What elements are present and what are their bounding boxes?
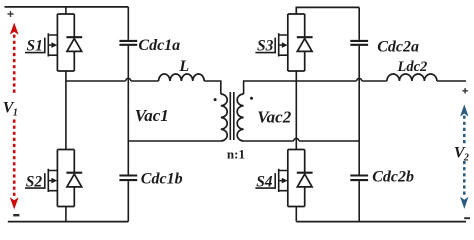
svg-text:S4: S4	[256, 173, 273, 190]
top bus (left bridge, V1 side)	[5, 6, 129, 8]
capacitor Cdc1a	[119, 41, 137, 45]
svg-text:S3: S3	[257, 37, 274, 54]
minus terminal V2	[464, 217, 470, 219]
svg-text:Vac1: Vac1	[135, 106, 169, 125]
wire B: primary bottom to cap midpoint	[128, 140, 221, 142]
secondary top lead to Ldc2 wire, hop over right cap leg	[244, 81, 387, 94]
transistor S4 body box	[288, 150, 305, 207]
transistor S2 MOSFET symbol (gate, channel, arrow)	[25, 169, 57, 192]
svg-text:S1: S1	[27, 37, 43, 54]
V1 port arrow (red dashed, double headed)	[13, 35, 16, 198]
capacitor Cdc1b	[119, 176, 137, 181]
V2 port arrow (blue dashed, double headed)	[463, 116, 466, 198]
capacitor Cdc2b	[350, 176, 368, 181]
transistor S3 MOSFET symbol (gate, channel, arrow)	[255, 33, 287, 56]
polarity dot primary	[214, 98, 217, 101]
wire A: leg midpoint through L to primary, with hop over cap leg	[66, 80, 159, 82]
svg-text:Cdc1a: Cdc1a	[138, 37, 180, 54]
polarity dot secondary	[250, 97, 253, 100]
plus terminal V2	[462, 88, 467, 93]
transformer secondary winding	[237, 94, 243, 141]
right switching-leg wires	[295, 71, 297, 222]
body diode of S3	[304, 14, 306, 71]
secondary bottom lead to right leg midpoint and cap midpoint	[244, 140, 360, 142]
left switching-leg wires (stubs and midpoint)	[65, 7, 67, 222]
svg-text:n:1: n:1	[227, 146, 245, 161]
inductor Ldc2	[387, 74, 437, 81]
inductor L	[159, 74, 205, 81]
transistor S3 body box	[288, 14, 305, 71]
svg-text:Vac2: Vac2	[257, 107, 292, 126]
plus terminal V1	[8, 11, 14, 17]
junction bump at right leg midpoint	[294, 138, 299, 141]
bottom bus (right bridge)	[296, 221, 466, 223]
top bus (right bridge)	[296, 7, 359, 14]
svg-text:Cdc2b: Cdc2b	[372, 169, 414, 186]
transistor S1 MOSFET symbol (gate, channel, arrow)	[25, 33, 57, 56]
body diode of S4	[304, 150, 306, 207]
svg-text:S2: S2	[26, 173, 43, 190]
svg-text:Cdc2a: Cdc2a	[377, 39, 419, 56]
transistor S1 body box	[57, 14, 74, 71]
minus terminal V1	[13, 214, 19, 216]
transformer primary winding	[221, 94, 227, 141]
capacitor Cdc2a	[350, 41, 368, 45]
svg-text:2: 2	[463, 152, 469, 163]
transistor S2 body box	[57, 150, 74, 207]
svg-text:L: L	[178, 58, 189, 75]
svg-text:Ldc2: Ldc2	[397, 59, 428, 75]
svg-text:1: 1	[13, 107, 18, 118]
body diode of S1	[73, 14, 75, 71]
body diode of S2	[73, 150, 75, 207]
capacitor leg Cdc2a/Cdc2b vertical wire	[358, 7, 360, 221]
bottom bus (left bridge)	[8, 221, 129, 223]
svg-text:Cdc1b: Cdc1b	[141, 171, 183, 188]
transistor S4 MOSFET symbol (gate, channel, arrow)	[255, 169, 287, 192]
capacitor leg Cdc1a/Cdc1b vertical wire	[127, 7, 129, 222]
hop (no connection) over cap leg	[126, 78, 131, 81]
transformer core	[230, 92, 234, 140]
